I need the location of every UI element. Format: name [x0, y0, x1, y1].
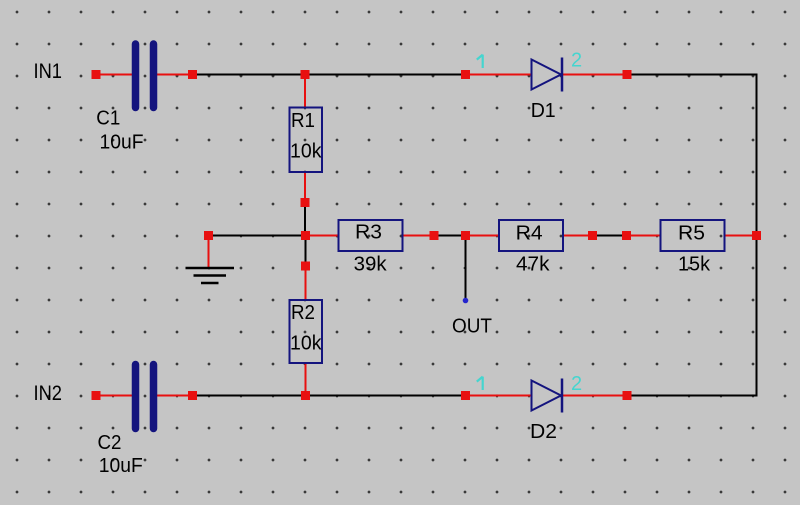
wire: right vertical rail (black) [756, 74, 758, 397]
node square: OUT junction / R4 left pin [461, 231, 470, 240]
svg-text:D2: D2 [530, 421, 557, 443]
svg-text:R5: R5 [678, 223, 705, 245]
wire: R1 bottom square to mid junction (black) [304, 203, 306, 237]
pin wire: R5 right stub (red) [725, 235, 757, 237]
node square: IN1 terminal pin [92, 70, 101, 79]
resistor R3 box [339, 220, 403, 251]
capacitor C1 [136, 44, 154, 108]
node square: ground pin [204, 231, 213, 240]
svg-text:IN1: IN1 [34, 60, 63, 83]
svg-text:C1: C1 [96, 108, 120, 130]
wire: R3 right square to OUT junction (black) [434, 235, 466, 237]
svg-text:15k: 15k [678, 254, 711, 276]
node square: C2 right pin [188, 391, 197, 400]
node square: R5 left pin [622, 231, 631, 240]
pin wire: C2 right plate to net square (red) [157, 395, 193, 397]
svg-text:R3: R3 [355, 222, 382, 244]
pin wire: IN1 to C1 left plate (red) [96, 74, 132, 76]
wire: ground to mid junction (black) [209, 235, 306, 237]
node square: D1 cathode pin [623, 70, 632, 79]
wire: top net C1 to D1 anode (black) [193, 74, 467, 76]
node square: D2 cathode pin [623, 391, 632, 400]
pin wire: D1 anode stub (red) [466, 74, 532, 76]
node OUT dot [463, 298, 469, 304]
pin wire: R1 bottom stub (red) [304, 173, 306, 203]
pin wire: D1 cathode stub (red) [562, 74, 628, 76]
diode D1 [532, 58, 563, 92]
svg-text:10k: 10k [290, 141, 322, 163]
diode D2 [532, 379, 563, 413]
node square: R2 top pin [301, 262, 310, 271]
svg-text:IN2: IN2 [34, 382, 63, 405]
svg-text:10uF: 10uF [100, 132, 144, 154]
svg-text:39k: 39k [354, 254, 388, 276]
svg-text:R2: R2 [291, 302, 315, 324]
capacitor C2 [136, 365, 154, 429]
resistor R2 box [290, 300, 323, 363]
pin wire: C1 right plate to net square (red) [157, 74, 193, 76]
svg-text:2: 2 [571, 373, 582, 395]
wire: bottom net D2 cathode to right rail (black) [627, 395, 757, 397]
wire: OUT stub vertical (black) [465, 236, 467, 300]
svg-text:OUT: OUT [452, 316, 492, 338]
pin wire: R4 right stub (red) [564, 235, 593, 237]
svg-text:R4: R4 [516, 223, 543, 245]
pin wire: R3 right stub (red) [403, 235, 434, 237]
svg-text:R1: R1 [291, 110, 315, 132]
pin wire: R5 left stub (red) [627, 235, 661, 237]
pin wire: R1 top stub (red) [304, 75, 306, 108]
node square: D1 anode pin [461, 70, 470, 79]
wire: top net D1 cathode to right rail (black) [627, 74, 758, 76]
node square: C1 right pin [188, 70, 197, 79]
node square: R5 right pin on rail [752, 231, 761, 240]
pin number 1 (D1) [477, 55, 483, 68]
pin wire: IN2 to C2 left plate (red) [96, 395, 132, 397]
svg-text:C2: C2 [98, 432, 122, 454]
wire: mid junction to R2 top square (black) [305, 236, 307, 267]
pin wire: R3 left stub (red) [306, 235, 339, 237]
pin wire: R2 bottom stub (red) [305, 364, 307, 396]
resistor R5 box [661, 220, 725, 251]
node square: top junction at R1 [301, 70, 310, 79]
pin wire: D2 anode stub (red) [466, 395, 532, 397]
pin wire: R4 left stub (red) [466, 235, 499, 237]
node square: R1 bottom pin [301, 198, 310, 207]
resistor R1 box [290, 108, 323, 173]
node square: R2 bottom junction [301, 391, 310, 400]
node square: D2 anode pin [461, 391, 470, 400]
pin number 1 (D2) [477, 377, 483, 390]
node square: IN2 terminal pin [92, 391, 101, 400]
svg-text:47k: 47k [516, 254, 551, 276]
node square: mid junction [301, 231, 310, 240]
svg-text:10uF: 10uF [99, 455, 143, 477]
svg-text:2: 2 [571, 50, 582, 72]
pin wire: R2 top stub (red) [305, 266, 307, 300]
pin wire: D2 cathode stub (red) [562, 395, 628, 397]
node square: R3 right pin [430, 231, 439, 240]
resistor R4 box [499, 220, 563, 251]
ground [186, 268, 235, 283]
svg-text:10k: 10k [290, 333, 322, 355]
wire: bottom net C2 to D2 anode (black) [193, 395, 467, 397]
pin wire: ground stub vertical (red) [208, 236, 210, 269]
node square: R4 right pin [588, 231, 597, 240]
wire: R4 right square to R5 left square (black) [593, 235, 627, 237]
svg-text:D1: D1 [531, 100, 556, 122]
